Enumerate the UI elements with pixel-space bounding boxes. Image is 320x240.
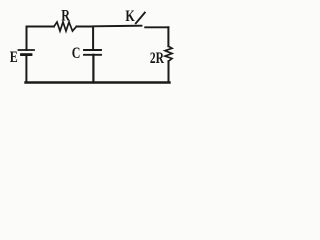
wire resistor to node A — [77, 26, 94, 28]
wire capacitor to bottom — [92, 55, 94, 83]
svg-text:K: K — [125, 7, 134, 25]
wire switch to top-right corner — [145, 26, 168, 28]
switch K lever — [136, 13, 145, 24]
wire bottom — [26, 81, 170, 84]
wire node A to switch — [93, 25, 141, 28]
wire left bottom — [25, 55, 27, 83]
wire right top — [167, 27, 169, 46]
svg-text:2R: 2R — [150, 50, 165, 67]
wire left top — [26, 27, 28, 51]
resistor R — [54, 22, 77, 31]
capacitor C bottom plate — [84, 54, 101, 56]
wire right bottom — [168, 61, 170, 82]
svg-text:E: E — [10, 48, 18, 66]
svg-text:R: R — [61, 7, 70, 25]
battery E long plate — [19, 49, 35, 51]
wire top-left segment — [27, 26, 55, 28]
capacitor C top plate — [84, 49, 101, 51]
wire node A to capacitor — [92, 27, 94, 51]
resistor 2R — [165, 46, 172, 61]
battery E short plate — [22, 53, 32, 56]
svg-text:C: C — [72, 45, 81, 63]
